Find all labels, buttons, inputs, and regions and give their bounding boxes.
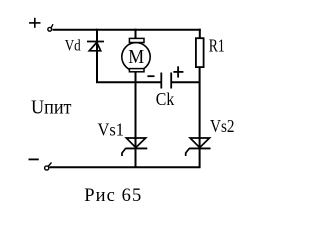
svg-text:M: M <box>128 47 144 68</box>
svg-text:Vd: Vd <box>65 38 81 55</box>
svg-text:Vs2: Vs2 <box>210 116 235 136</box>
svg-text:R1: R1 <box>209 35 225 55</box>
svg-text:Рис 65: Рис 65 <box>84 186 141 206</box>
svg-text:Uпит: Uпит <box>31 96 72 118</box>
svg-text:Ck: Ck <box>156 89 175 109</box>
svg-text:Vs1: Vs1 <box>98 119 125 139</box>
